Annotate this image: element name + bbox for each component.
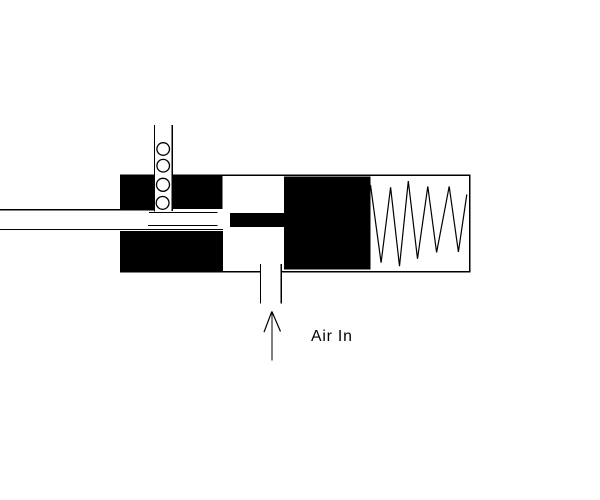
piston [284, 176, 370, 269]
air inlet port left wall [260, 264, 261, 304]
ball tube left wall [154, 125, 155, 212]
rod-to-piston link bar [230, 213, 285, 227]
rod inner bottom line [148, 225, 218, 226]
rod inner top line [149, 212, 218, 213]
ball 2 [157, 159, 170, 172]
ball 4 [156, 197, 169, 210]
ball tube interior [155, 125, 172, 212]
housing block bottom-left [120, 231, 223, 272]
return spring [371, 181, 467, 266]
ball 1 [157, 143, 170, 156]
cylinder body right wall [469, 175, 470, 272]
svg-text:Air In: Air In [311, 328, 353, 345]
ball 3 [157, 178, 170, 191]
cylinder body top wall [120, 175, 470, 176]
rod top line [0, 209, 155, 210]
housing block top-left [120, 175, 223, 209]
air-in arrow shaft [271, 312, 272, 361]
rod bottom line [0, 229, 223, 230]
cylinder body bottom wall left segment [120, 271, 260, 272]
air-in arrow head [264, 312, 281, 333]
cylinder body bottom wall right segment [281, 271, 470, 272]
air inlet port right wall [281, 264, 282, 303]
ball tube right wall [172, 125, 173, 211]
